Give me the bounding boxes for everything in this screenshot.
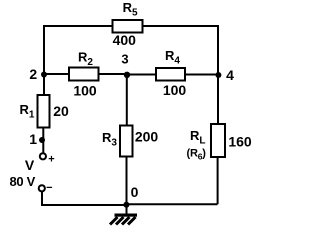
wire node 3 down to R3 top (126, 74, 128, 127)
node 0 junction dot (123, 202, 129, 208)
svg-text:4: 4 (226, 67, 234, 83)
+ terminal circle of source V (40, 153, 46, 159)
wire mid rail node3 to node4 (126, 74, 218, 76)
svg-text:3: 3 (121, 52, 128, 67)
wire mid rail node2 to node3 (43, 73, 127, 75)
svg-text:1: 1 (29, 131, 37, 147)
wire R1 bottom to + terminal (through node 1) (42, 127, 44, 153)
svg-text:200: 200 (135, 129, 159, 145)
node 2 junction dot (41, 72, 47, 78)
svg-text:+: + (48, 154, 54, 166)
svg-text:20: 20 (53, 103, 69, 119)
resistor R2 box (69, 68, 99, 81)
svg-text:V: V (25, 157, 35, 173)
wire - terminal down to bottom left corner (41, 192, 43, 205)
svg-text:160: 160 (228, 134, 252, 150)
ground bar (115, 214, 138, 217)
node 3 junction dot (124, 72, 130, 78)
- terminal circle of source V (39, 185, 45, 191)
svg-text:100: 100 (163, 82, 187, 98)
wire bottom right rail node 0 to right branch (127, 203, 218, 205)
wire R3 bottom through node 0 to ground (126, 157, 128, 214)
svg-text:2: 2 (29, 66, 37, 82)
resistor R5 box (113, 20, 143, 33)
wire bottom left rail to node 0 (41, 204, 127, 206)
resistor RL box (211, 124, 225, 157)
wire right vertical from top rail to RL top (through node 4) (217, 25, 219, 125)
wire left vertical from top rail to R1 top (through node 2) (43, 25, 45, 96)
ground hatch (110, 217, 136, 225)
svg-text:(R6): (R6) (187, 148, 207, 162)
wire RL bottom to bottom right corner (217, 157, 219, 204)
resistor R1 box (38, 95, 50, 128)
resistor R4 box (156, 68, 185, 81)
resistor R3 box (120, 126, 133, 157)
svg-text:−: − (46, 182, 52, 194)
node 4 junction dot (215, 72, 221, 78)
wire top rail from node 2 branch to node 4 branch (44, 25, 218, 27)
node 1 junction dot (39, 137, 45, 143)
svg-text:400: 400 (113, 32, 137, 48)
svg-text:0: 0 (131, 184, 139, 200)
svg-text:80 V: 80 V (10, 174, 36, 189)
svg-text:100: 100 (73, 83, 97, 99)
